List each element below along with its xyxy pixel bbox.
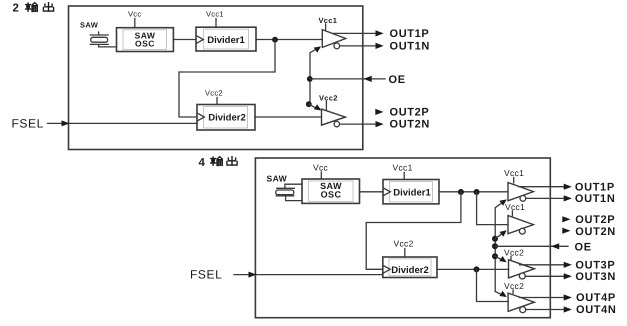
outer box top diagram	[69, 6, 363, 150]
arrowhead FSEL	[62, 120, 70, 126]
Vcc label (SAW OSC top)	[128, 10, 141, 19]
arrowhead OUT3P	[564, 262, 572, 268]
arrowhead OUT2N detached bottom	[562, 228, 570, 234]
FSEL label	[12, 117, 44, 131]
OUT2P label	[390, 107, 430, 119]
arrowhead OUT1P	[376, 30, 384, 36]
OE label	[389, 74, 406, 86]
arrowhead OUT1N bottom	[564, 195, 572, 201]
wire enable buffer B3	[495, 256, 505, 261]
wire Divider1 to buffer B1	[439, 191, 508, 193]
Vcc1 label (Divider1 top)	[206, 10, 224, 19]
wire Vcc2 stub B4	[512, 290, 514, 293]
arrowhead OUT4N	[564, 306, 572, 312]
wire Vcc stub	[320, 172, 322, 179]
svg-text:OUT1N: OUT1N	[390, 41, 431, 53]
wire OUT3N	[525, 275, 565, 277]
wire enable buffer B4	[495, 292, 505, 297]
inverter bubble A2	[334, 121, 339, 126]
arrowhead enable B3	[499, 256, 506, 262]
svg-text:OE: OE	[389, 74, 406, 86]
svg-text:OUT2P: OUT2P	[575, 214, 615, 226]
wire OUT3P	[520, 264, 566, 266]
divider U5 Divider1 box	[383, 180, 439, 204]
arrowhead enable buffer2	[314, 104, 321, 110]
divider U2 Divider1 box	[196, 27, 256, 51]
svg-text:OUT3N: OUT3N	[575, 271, 616, 283]
crystal X2 (bottom)	[276, 188, 294, 196]
wire SAW OSC to Divider1	[360, 191, 384, 193]
wire J3 to buffer B2	[477, 192, 508, 225]
OUT4N label	[576, 304, 617, 316]
svg-text:OSC: OSC	[321, 190, 342, 200]
wire FSEL input	[48, 122, 198, 124]
node enable J5 dot	[492, 236, 498, 242]
inverter bubble B3	[519, 273, 525, 279]
divider U3 Divider2 box	[197, 105, 255, 131]
wire OE	[310, 78, 385, 80]
arrowhead OE bottom	[551, 243, 559, 249]
wire enable buffer2	[309, 104, 319, 109]
wire Vcc2 stub	[216, 98, 218, 105]
buffer B2 triangle	[508, 216, 533, 234]
svg-text:OSC: OSC	[135, 38, 155, 48]
svg-text:Vcc2: Vcc2	[394, 239, 414, 249]
node enable2 junction dot	[306, 101, 312, 107]
svg-text:Vcc2: Vcc2	[205, 89, 223, 98]
wire crystal bottom terminal	[286, 196, 302, 201]
node J3 junction dot	[474, 189, 480, 195]
OUT4P label	[576, 292, 616, 304]
clock pin chevron Divider2	[198, 113, 205, 120]
svg-text:OUT1P: OUT1P	[575, 181, 615, 193]
glyph 输 (of 2输出)	[26, 3, 38, 12]
svg-text:Vcc2: Vcc2	[504, 247, 524, 257]
svg-text:FSEL: FSEL	[190, 268, 222, 282]
wire Vcc1 stub B1	[513, 178, 515, 183]
svg-text:OUT2P: OUT2P	[390, 107, 430, 119]
OUT1N label	[390, 41, 431, 53]
glyph 输 (of 4输出)	[211, 157, 223, 166]
Vcc1 label (buffer B1)	[504, 168, 524, 178]
inverter bubble B1	[520, 196, 526, 202]
OUT1P label	[390, 28, 430, 40]
oscillator U4 SAW OSC box	[302, 179, 360, 203]
arrowhead OUT4P	[564, 294, 572, 300]
svg-text:OUT2N: OUT2N	[390, 119, 431, 131]
SAW label (top crystal)	[80, 21, 99, 30]
wire Vcc2 stub buffer2	[325, 102, 327, 110]
wire Vcc1 stub	[403, 173, 405, 180]
inverter bubble A1	[334, 43, 340, 49]
label 4输出	[199, 157, 206, 169]
arrowhead OUT2P detached	[375, 109, 383, 115]
svg-text:4: 4	[199, 157, 206, 169]
Vcc2 label (buffer B4)	[504, 281, 524, 291]
OUT1P label bottom	[575, 181, 615, 193]
svg-text:FSEL: FSEL	[12, 117, 44, 131]
OUT1N label bottom	[575, 193, 616, 205]
wire feedback J2 to Divider2	[366, 192, 461, 269]
svg-text:Divider1: Divider1	[393, 187, 431, 198]
arrowhead OUT3N	[564, 273, 572, 279]
node OE junction dot	[307, 76, 313, 82]
wire OUT2N	[340, 123, 378, 125]
Vcc2 label (Divider2 top)	[205, 89, 223, 98]
svg-text:Vcc2: Vcc2	[319, 94, 338, 103]
buffer A2 triangle	[322, 109, 346, 125]
svg-text:Vcc1: Vcc1	[319, 16, 338, 25]
wire Vcc stub	[134, 19, 136, 28]
clock pin chevron Divider1	[384, 188, 391, 195]
wire Divider2 to buffer2	[255, 116, 322, 118]
svg-text:OUT2N: OUT2N	[575, 226, 616, 238]
svg-text:OUT1P: OUT1P	[390, 28, 430, 40]
OUT3N label	[575, 271, 616, 283]
node enable J7 dot	[492, 253, 498, 259]
Vcc2 label (buffer B3)	[504, 247, 524, 257]
svg-text:OUT4P: OUT4P	[576, 292, 616, 304]
svg-text:Vcc1: Vcc1	[504, 168, 524, 178]
wire OUT4N	[526, 309, 566, 311]
svg-text:OUT3P: OUT3P	[575, 260, 615, 272]
svg-text:Divider2: Divider2	[208, 113, 246, 124]
svg-text:Vcc1: Vcc1	[393, 163, 413, 173]
buffer B4 triangle	[508, 293, 534, 311]
arrowhead enable B1	[499, 199, 506, 205]
svg-text:SAW: SAW	[267, 174, 288, 184]
clock pin chevron Divider2	[384, 266, 391, 273]
arrowhead OE	[364, 76, 372, 82]
wire FSEL input bottom	[234, 274, 383, 276]
svg-text:SAW: SAW	[80, 21, 99, 30]
divider U6 Divider2 box	[383, 257, 437, 278]
arrowhead enable B4	[500, 291, 507, 297]
svg-text:Divider2: Divider2	[391, 265, 429, 276]
SAW label (bottom crystal)	[267, 174, 288, 184]
clock pin chevron Divider1	[197, 36, 204, 43]
OE label bottom	[575, 241, 592, 253]
wire OUT1N bottom	[526, 197, 566, 199]
wire Vcc2 stub B3	[510, 257, 512, 261]
svg-text:OUT1N: OUT1N	[575, 193, 616, 205]
buffer B3 triangle	[509, 260, 535, 278]
svg-text:Vcc: Vcc	[313, 163, 329, 173]
wire OUT4P	[520, 297, 566, 299]
inverter bubble B4	[520, 307, 526, 313]
svg-text:OUT4N: OUT4N	[576, 304, 617, 316]
wire OE bottom	[495, 245, 568, 247]
buffer B1 triangle	[508, 183, 533, 201]
svg-text:Vcc1: Vcc1	[505, 202, 525, 212]
wire Vcc1 stub B2	[511, 211, 513, 216]
wire J4 to buffer B4	[477, 269, 509, 301]
OUT2P label bottom	[575, 214, 615, 226]
node J2 junction dot	[458, 189, 464, 195]
glyph 出 (of 4输出)	[227, 157, 237, 165]
wire enable buffer B1	[495, 201, 504, 292]
arrowhead OUT2N	[376, 121, 384, 127]
wire crystal top terminal	[285, 184, 302, 188]
label 2输出	[13, 3, 19, 15]
wire Divider1 to buffer1	[256, 39, 322, 41]
Vcc1 label (buffer1 top)	[319, 16, 338, 25]
svg-text:OE: OE	[575, 241, 592, 253]
arrowhead OUT2P detached bottom	[562, 216, 570, 222]
arrowhead OUT1N	[376, 43, 384, 49]
wire OUT1P bottom	[519, 186, 566, 188]
wire feedback J1 to Divider2	[179, 40, 275, 117]
wire Divider2 to buffer B3	[437, 268, 509, 270]
node J1 junction dot	[272, 37, 278, 43]
buffer A1 triangle	[322, 30, 345, 48]
glyph 出 (of 2输出)	[43, 3, 53, 11]
inverter bubble B2	[519, 228, 525, 234]
arrowhead enable B2	[500, 230, 507, 237]
svg-text:2: 2	[13, 3, 19, 15]
wire crystal to SAW OSC	[99, 46, 117, 48]
wire enable buffer B2	[495, 232, 505, 239]
node J4 junction dot	[474, 266, 480, 272]
wire Vcc2 stub	[404, 249, 406, 258]
arrowhead enable buffer1	[314, 46, 321, 52]
Vcc label (SAW OSC bottom)	[313, 163, 329, 173]
OUT2N label	[390, 119, 431, 131]
svg-text:Divider1: Divider1	[207, 35, 245, 46]
wire Vcc1 stub	[215, 19, 217, 28]
OUT2N label bottom	[575, 226, 616, 238]
FSEL label (bottom)	[190, 268, 222, 282]
Vcc2 label (buffer2 top)	[319, 94, 338, 103]
crystal X1 (top)	[90, 32, 108, 47]
wire SAW OSC to Divider1	[173, 39, 196, 41]
OUT3P label	[575, 260, 615, 272]
arrowhead FSEL bottom	[249, 272, 257, 278]
Vcc1 label (buffer B2)	[505, 202, 525, 212]
node OE J6 dot	[492, 243, 498, 249]
oscillator U1 SAW OSC box	[117, 28, 174, 52]
wire OUT1P	[333, 32, 377, 34]
wire Vcc1 stub buffer1	[325, 24, 327, 30]
svg-text:Vcc2: Vcc2	[504, 281, 524, 291]
outer box bottom diagram	[255, 158, 550, 318]
Vcc1 label (Divider1 bottom)	[393, 163, 413, 173]
svg-text:Vcc1: Vcc1	[206, 10, 224, 19]
wire OUT1N	[340, 45, 378, 47]
svg-text:Vcc: Vcc	[128, 10, 141, 19]
Vcc2 label (Divider2 bottom)	[394, 239, 414, 249]
wire enable buffer1	[310, 48, 319, 105]
arrowhead OUT1P bottom	[564, 184, 572, 190]
